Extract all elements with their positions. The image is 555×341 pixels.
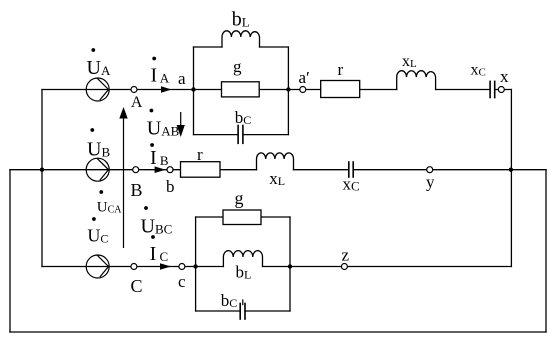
svg-text:xL: xL [402,53,417,70]
wire phase A bottom branch left [194,134,239,136]
svg-text:UCA: UCA [97,200,123,216]
svg-text:A: A [131,94,143,111]
wire bottom horizontal [10,331,546,333]
terminal x [498,87,504,93]
svg-text:b: b [166,177,175,196]
terminal a' [300,87,306,93]
source UC [86,255,109,278]
label UC [87,217,108,245]
junction c block right [288,264,292,268]
label IC [150,235,169,265]
inductor bL phase A [222,31,260,47]
wire row A after coil to capacitor [436,89,491,91]
wire phase A top branch right [260,46,289,48]
terminal y [427,167,433,173]
junction left bus row B [40,168,44,172]
svg-text:bL: bL [232,9,250,31]
arrow IA [161,86,172,92]
arrow UAB down [177,112,185,137]
svg-text:I B: I B [150,147,169,169]
junction a block right [286,87,290,91]
svg-text:UA: UA [87,57,111,79]
wire row B capacitor to right corner [353,169,546,171]
svg-text:UB: UB [87,138,110,160]
wire phase A block left rail [193,47,195,135]
junction c block left [193,264,197,268]
capacitor bC phase C [240,300,245,319]
wire phase C block left rail [195,217,197,311]
svg-text:x: x [500,67,509,86]
svg-text:bC: bC [221,291,238,310]
arrow IC [160,263,171,270]
wire row A capacitor to x terminal and corner [495,89,512,91]
svg-text:z: z [342,245,350,264]
label IA [151,57,170,87]
terminal B [133,167,139,173]
wire phase C bottom branch left [196,310,241,312]
svg-text:y: y [426,172,435,191]
source UB [86,158,109,181]
svg-text:g: g [233,57,242,76]
svg-text:UBC: UBC [141,215,173,237]
svg-text:xL: xL [269,169,285,188]
wire phase A block right rail [287,47,289,135]
label IB [150,143,169,169]
wire row B horizontal [10,169,257,171]
svg-text:C: C [131,276,143,296]
inductor bL phase C [223,251,262,267]
svg-text:I A: I A [151,65,170,87]
svg-text:g: g [235,188,244,208]
arrow IB [155,166,166,173]
svg-text:UAB: UAB [147,118,180,140]
wire phase A top branch left [194,46,223,48]
svg-text:r: r [338,60,344,79]
inductor xL row B [257,153,294,170]
label UB [87,128,110,160]
terminal A [131,87,137,93]
resistor r row A [321,81,360,98]
svg-text:bL: bL [236,263,252,282]
wire phase C block right rail [289,217,291,311]
svg-text:I C: I C [150,243,169,265]
svg-text:xC: xC [343,175,360,194]
wire row C horizontal [42,266,223,268]
junction row B right [509,168,513,172]
terminal C [131,264,137,270]
wire phase C top branch [196,216,290,218]
wire phase C bottom branch right [245,310,290,312]
resistor r row B [181,162,221,178]
svg-text:a′: a′ [299,68,310,87]
capacitor xC row B [349,162,353,177]
terminal b [167,167,173,173]
label UCA [97,190,123,215]
svg-text:c: c [178,272,186,291]
resistor g phase A [222,82,260,97]
svg-text:UC: UC [87,226,108,246]
resistor g phase C [223,210,261,225]
arrow UCA vertical [119,107,127,248]
source UA [86,78,109,101]
node a junction [191,87,195,91]
svg-text:r: r [197,145,203,164]
capacitor bC phase A [238,126,243,144]
wire left vertical bus A to C [41,90,43,267]
wire left outer vertical [9,170,11,332]
wire phase A bottom branch right [243,134,289,136]
svg-text:a: a [178,69,186,88]
capacitor xC row A [490,81,495,97]
wire right outer vertical [545,170,547,332]
wire row B after coil [294,169,349,171]
svg-text:bC: bC [235,108,252,127]
terminal c [179,264,185,270]
wire row A horizontal [42,89,397,91]
svg-text:B: B [131,180,143,200]
label UA [87,48,111,79]
inductor xL row A [397,71,436,90]
wire right vertical x to z row [510,90,512,267]
svg-text:xC: xC [471,62,486,79]
label UAB [147,109,180,140]
terminal z [341,264,347,270]
label UBC [141,206,173,237]
wire row C after coil to corner [263,266,512,268]
